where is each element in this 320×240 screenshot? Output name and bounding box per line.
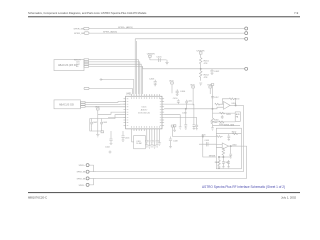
svg-text:SPKR+: SPKR+ xyxy=(79,165,86,167)
capacitor C401 (series) xyxy=(159,58,161,62)
resistor R454 (input) xyxy=(215,103,223,105)
wire SSI w1 xyxy=(85,101,126,104)
svg-text:VDD: VDD xyxy=(95,106,100,108)
wire loop branch xyxy=(90,119,98,132)
wire W6 xyxy=(199,143,216,145)
wire W9 long speaker line xyxy=(96,178,247,180)
wire from VCC1 xyxy=(150,59,167,61)
svg-text:SPKR-: SPKR- xyxy=(79,185,85,187)
wire W4 branch to AB28 xyxy=(143,67,245,69)
svg-text:SPKR_SE+: SPKR_SE+ xyxy=(74,28,86,30)
wire left network rail xyxy=(97,119,99,135)
terminal bottom 1 xyxy=(86,164,89,167)
svg-text:C443: C443 xyxy=(102,122,107,124)
svg-text:Schematics, Component Location: Schematics, Component Location Diagrams,… xyxy=(28,11,147,15)
riser A (op-amp1 output down) xyxy=(243,105,245,171)
IC U401 pins left xyxy=(124,99,126,126)
svg-text:C404: C404 xyxy=(180,91,186,93)
junction dot box2 xyxy=(223,156,224,157)
junction cross node B xyxy=(109,151,112,154)
capacitor C445 with ground xyxy=(121,136,124,141)
resistor R456 xyxy=(219,121,224,123)
svg-text:C457: C457 xyxy=(214,97,219,99)
capacitor C448 with ground xyxy=(169,137,172,148)
capacitor C455 (on vertical x196.7) xyxy=(195,117,198,129)
wire U401 bottom stub 4 xyxy=(151,131,154,147)
svg-text:C450: C450 xyxy=(173,98,178,100)
wire to U401 left pins 2 xyxy=(98,115,126,119)
svg-text:ASTRO Spectra Plus RF Interfac: ASTRO Spectra Plus RF Interface Schemati… xyxy=(202,185,285,189)
box audio PA section xyxy=(216,128,241,169)
wire Y401 left pin xyxy=(132,141,134,143)
capacitor C449 (series on W6) xyxy=(206,142,208,146)
capacitor C402 xyxy=(210,69,213,75)
wire from node A to bus xyxy=(101,80,134,95)
svg-text:U401: U401 xyxy=(142,107,148,109)
resistor R453 (feedback) xyxy=(222,98,235,106)
ground G2 xyxy=(96,135,99,137)
pin P4 of ABACUS xyxy=(84,66,89,68)
capacitor C403 with ground xyxy=(154,80,157,86)
wire stub x123 xyxy=(122,131,124,136)
junction dot rail xyxy=(212,108,213,109)
wire from ABACUS pin2 xyxy=(89,62,140,94)
op-amp U450-B xyxy=(222,143,228,149)
resistor R452 (vertical on rail) xyxy=(211,118,214,125)
IC U401 inner pin numbers bottom xyxy=(132,126,160,128)
ground G1 xyxy=(165,60,168,65)
block ABACUS SSI (box) xyxy=(54,100,81,109)
svg-text:U450: U450 xyxy=(232,144,237,146)
wire from ABACUS pin1 xyxy=(89,60,139,95)
IC U401 body xyxy=(126,96,162,129)
terminal bottom 2 xyxy=(86,170,89,173)
svg-text:16.8M: 16.8M xyxy=(136,143,142,145)
wire RC row3 xyxy=(213,125,241,127)
terminal AB26 xyxy=(245,32,248,35)
svg-text:C461: C461 xyxy=(225,162,230,164)
wire U401 bottom stub 6 xyxy=(156,131,159,147)
tiny text labels xyxy=(58,26,240,187)
wire riser bus down to U401 xyxy=(134,39,136,94)
resistor R459 (vertical) xyxy=(218,157,221,168)
power flag VCC4 xyxy=(192,86,195,105)
header rule xyxy=(28,16,300,17)
right grid wire from U401 pin r6 xyxy=(164,115,180,127)
power flag VCC5 xyxy=(209,86,212,94)
footer rule xyxy=(28,192,300,193)
wire W2 SPKR- to AB26 xyxy=(89,32,245,34)
pin P1 of ABACUS xyxy=(84,59,89,61)
rail x212.5 xyxy=(212,88,214,118)
pin S2 of ABACUS SSI xyxy=(81,104,86,106)
wire U401 bottom stub 5 xyxy=(153,131,156,148)
terminal AB25 xyxy=(245,27,248,30)
svg-text:SPKR_SEN: SPKR_SEN xyxy=(224,124,235,126)
svg-text:SPKR_SE-: SPKR_SE- xyxy=(77,178,87,180)
svg-text:R453: R453 xyxy=(235,99,240,101)
svg-text:C403: C403 xyxy=(149,79,155,81)
oscillator Y401 (box) xyxy=(134,136,146,149)
wire from ABACUS pin3 xyxy=(89,64,142,94)
wire RC row2 xyxy=(210,121,235,123)
pin S3 of ABACUS SSI xyxy=(81,106,86,108)
wire row inside box xyxy=(216,133,241,135)
wire W3 from bus to AB27 xyxy=(135,38,244,40)
right grid wire from U401 pin r3 xyxy=(164,103,194,105)
svg-text:47K: 47K xyxy=(204,63,208,65)
wire op-amp1 output xyxy=(230,104,243,106)
capacitor C453 (on vertical x185.8) xyxy=(184,109,187,129)
pin P2 of ABACUS xyxy=(84,61,89,63)
capacitor C456 label stub xyxy=(182,110,184,112)
resistor R458 (vertical) xyxy=(222,148,225,157)
terminal bottom 4 xyxy=(86,183,89,186)
wire U401 bottom stub 7 xyxy=(158,131,161,145)
capacitor C444 with ground xyxy=(109,131,112,145)
capacitor C458 xyxy=(221,115,224,119)
rail bottom to ground xyxy=(211,125,214,130)
svg-text:VDD: VDD xyxy=(207,84,212,86)
power flag VCC10 xyxy=(211,84,214,89)
svg-text:5185130C40: 5185130C40 xyxy=(138,113,151,115)
junction dot box1 xyxy=(218,156,219,157)
block ABACUS IC RX (box) xyxy=(54,60,84,71)
wire W8 long speaker line xyxy=(96,171,244,173)
svg-text:ABACUS (RX IF): ABACUS (RX IF) xyxy=(58,64,77,67)
junction dot output2 xyxy=(230,145,231,146)
svg-text:SPKR- (AB26): SPKR- (AB26) xyxy=(103,30,117,33)
wire to U401 left pins xyxy=(98,112,126,114)
right grid wire from U401 pin r4 xyxy=(164,108,212,110)
connector J2 SPKR- xyxy=(84,32,89,35)
resistor R455 xyxy=(220,112,225,114)
capacitor C460 with ground xyxy=(229,146,232,158)
wire terminal2 stub xyxy=(89,171,96,173)
wire loop right branch xyxy=(92,127,102,131)
svg-text:SPKR_SE-: SPKR_SE- xyxy=(74,33,85,35)
wire terminal3 stub xyxy=(89,177,96,179)
capacitor C461 with ground xyxy=(222,157,225,168)
svg-text:6881076C20-C: 6881076C20-C xyxy=(28,196,47,200)
capacitor C450 xyxy=(177,99,180,104)
junction dot output1 xyxy=(235,105,236,106)
junction dot W5 xyxy=(202,136,203,137)
left network power flag VCC6 xyxy=(97,108,100,119)
ground G3 xyxy=(173,130,176,131)
svg-text:VDD: VDD xyxy=(169,80,174,82)
wire W5 to op-amp box xyxy=(173,136,217,138)
component box U451 xyxy=(235,112,240,121)
capacitor C442 xyxy=(90,119,93,128)
right grid wire from U401 pin r8 xyxy=(164,116,197,118)
svg-text:VDD: VDD xyxy=(190,84,195,86)
svg-text:SPKR+ (AB25): SPKR+ (AB25) xyxy=(118,26,133,29)
IC U401 inner pin numbers right xyxy=(160,99,162,126)
pin S1 of ABACUS SSI xyxy=(81,102,86,104)
svg-text:R457: R457 xyxy=(232,131,237,133)
junction dot grid1 xyxy=(185,108,186,109)
wire row y157 inside box xyxy=(219,156,231,158)
svg-text:C442: C442 xyxy=(93,122,98,124)
wire op-amp1 upper input xyxy=(222,103,224,105)
IC U401 pins top xyxy=(124,94,165,131)
wire stub left pin lower xyxy=(108,116,126,118)
svg-text:R456: R456 xyxy=(219,124,224,126)
svg-text:7-9: 7-9 xyxy=(294,11,299,15)
junction cross node A xyxy=(100,78,103,81)
IC U401 inner pin numbers left xyxy=(127,99,129,126)
svg-text:C401: C401 xyxy=(156,56,162,58)
power flag VCC9 (down) xyxy=(173,125,176,130)
svg-text:C444: C444 xyxy=(105,147,110,149)
svg-text:47K: 47K xyxy=(204,77,208,79)
power flag VCC1 xyxy=(149,55,152,60)
svg-text:C402: C402 xyxy=(214,71,220,73)
wire op-amp2 output xyxy=(229,145,242,147)
wire from ABACUS pin4 xyxy=(89,67,143,95)
svg-text:SENSE: SENSE xyxy=(209,155,216,157)
wire SSI w2 xyxy=(85,103,126,105)
svg-text:C449: C449 xyxy=(204,140,209,142)
wire riser 2 xyxy=(136,41,138,94)
svg-text:R459: R459 xyxy=(215,162,220,164)
svg-text:C448: C448 xyxy=(173,140,178,142)
op-amp U450-A xyxy=(224,102,231,110)
capacitor C451 xyxy=(185,100,188,109)
wire bracket terminal1 xyxy=(89,165,93,172)
svg-text:C453: C453 xyxy=(182,112,187,114)
wire W1 SPKR+ to AB25 xyxy=(89,28,245,30)
capacitor C454 (on vertical x193.9) xyxy=(193,104,196,129)
IC U401 pins bottom xyxy=(132,129,160,131)
wire bracket terminal4 xyxy=(89,179,93,185)
wire SSI w3 xyxy=(85,106,126,108)
terminal AB28 xyxy=(245,67,248,70)
svg-text:UNSW5: UNSW5 xyxy=(147,54,156,56)
svg-text:ABACUS SSI: ABACUS SSI xyxy=(59,103,74,106)
svg-text:AUDIO: AUDIO xyxy=(141,109,148,112)
IC U401 part number text xyxy=(138,107,151,115)
wire vertical to W7 xyxy=(203,137,217,158)
capacitor C443 xyxy=(100,119,103,128)
IC U401 inner pin numbers top xyxy=(132,97,160,99)
capacitor C462 with ground xyxy=(227,160,230,168)
svg-text:AUD: AUD xyxy=(202,134,207,137)
capacitor C459 with ground xyxy=(227,134,230,141)
connector J1 SPKR+ xyxy=(84,27,89,30)
wire U401 bottom stub 3 xyxy=(148,131,151,148)
wire op-amp1 lower input xyxy=(213,107,224,109)
power flag VCC2 xyxy=(199,52,202,54)
power flag VCC8 xyxy=(171,125,174,137)
capacitor C404 with ground xyxy=(176,89,179,95)
wire U401 bottom stub 1 xyxy=(131,131,133,142)
IC U401 pins right xyxy=(162,99,164,126)
power flag VCC3 xyxy=(171,82,174,93)
pin P3 of ABACUS xyxy=(84,63,89,65)
svg-text:UNSW5: UNSW5 xyxy=(197,50,206,52)
svg-text:C445: C445 xyxy=(125,138,130,140)
svg-text:C451: C451 xyxy=(188,100,193,102)
svg-text:R455: R455 xyxy=(226,114,231,116)
wire op-amp2 inputs xyxy=(216,145,222,148)
resistor R457 xyxy=(233,133,238,135)
svg-text:U401: U401 xyxy=(126,94,132,96)
capacitor C452 with ground xyxy=(179,127,182,129)
wire U401 bottom stub 2 xyxy=(145,131,148,147)
capacitor C457 (series on rail) xyxy=(211,96,214,98)
resistor R451 (vertical) xyxy=(199,54,202,85)
wire RC row1 xyxy=(213,112,236,114)
svg-text:U450: U450 xyxy=(231,103,236,105)
connector J3 xyxy=(84,87,89,89)
terminal AB27 xyxy=(245,37,248,40)
wire from J3 to bus xyxy=(89,89,132,95)
resistor R460 on W5 xyxy=(217,136,223,138)
power flag VCC7 (down) xyxy=(101,131,104,133)
riser B (op-amp2 output down) xyxy=(241,146,246,178)
svg-text:SPKR_SE+: SPKR_SE+ xyxy=(77,172,88,174)
svg-text:July 1, 2002: July 1, 2002 xyxy=(281,196,297,200)
terminal bottom 3 xyxy=(86,177,89,180)
